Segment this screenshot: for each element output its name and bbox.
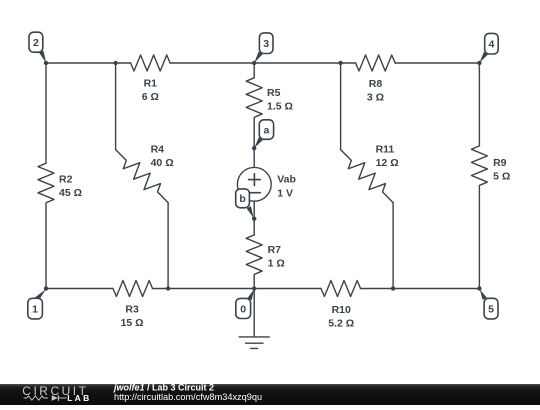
junction node 4 corner — [477, 61, 481, 65]
footer bar — [0, 384, 540, 405]
resistor R9 body — [471, 146, 487, 186]
svg-text:15 Ω: 15 Ω — [121, 317, 144, 329]
node 0 label — [236, 298, 251, 318]
wire R7 to node0 — [253, 275, 255, 288]
svg-text:3: 3 — [263, 38, 269, 50]
svg-text:3 Ω: 3 Ω — [367, 91, 384, 103]
svg-text:5.2 Ω: 5.2 Ω — [328, 318, 354, 330]
resistor R1 body — [131, 55, 171, 71]
junction node 3 — [252, 61, 256, 65]
svg-text:LAB: LAB — [67, 393, 91, 403]
node 2 pointer — [39, 51, 46, 63]
node 2 label — [29, 32, 43, 52]
svg-text:R1: R1 — [144, 78, 158, 90]
voltage source plus sign — [249, 174, 261, 186]
junction R3/R4 bottom — [166, 286, 170, 290]
junction R10/R11 bottom — [391, 286, 395, 290]
node 5 label — [484, 298, 498, 319]
voltage source Vab (circle) — [237, 167, 271, 201]
junction node b — [252, 217, 256, 221]
resistor R10 body — [321, 281, 361, 297]
resistor R7 body — [246, 235, 262, 275]
svg-text:1: 1 — [32, 303, 38, 315]
voltage source minus sign — [249, 192, 261, 194]
node a label — [259, 120, 273, 140]
node b pointer — [247, 206, 254, 218]
svg-text:R5: R5 — [267, 87, 281, 99]
junction node 0 — [252, 286, 256, 290]
node a pointer — [254, 137, 262, 148]
resistor R8 body — [356, 55, 396, 71]
svg-text:R2: R2 — [59, 173, 73, 185]
svg-text:1.5 Ω: 1.5 Ω — [267, 101, 293, 113]
node 4 label — [485, 33, 499, 54]
wire center column node3 to R5 — [253, 63, 255, 78]
junction node 2 corner — [44, 61, 48, 65]
svg-text:6 Ω: 6 Ω — [142, 91, 159, 103]
CircuitLab logo wordmark — [22, 384, 88, 401]
wire left rail (node2 to node1) — [45, 63, 47, 289]
svg-text:1 V: 1 V — [277, 188, 293, 200]
junction node 5 corner — [477, 286, 481, 290]
node 4 pointer — [480, 52, 488, 63]
wire right rail (node4 to node5) — [478, 63, 480, 289]
resistor R3 body — [113, 281, 153, 297]
junction R8/R11 top — [338, 61, 342, 65]
wire bottom rail: node1 to node0 to node5 — [46, 288, 479, 290]
junction R1/R4 top — [113, 61, 117, 65]
svg-text:http://circuitlab.com/cfw8m34x: http://circuitlab.com/cfw8m34xzq9qu — [114, 392, 262, 402]
node 1 label — [28, 298, 43, 319]
svg-text:R10: R10 — [332, 304, 351, 316]
svg-text:R7: R7 — [268, 244, 282, 256]
svg-text:b: b — [239, 193, 245, 205]
resistor R11 (diagonal) with connecting wires — [340, 63, 342, 150]
junction node a — [252, 146, 256, 150]
resistor R2 body — [38, 163, 54, 203]
svg-text:1 Ω: 1 Ω — [268, 257, 285, 269]
svg-text:R3: R3 — [125, 304, 139, 316]
svg-text:R4: R4 — [151, 144, 165, 156]
svg-text:40 Ω: 40 Ω — [151, 157, 174, 169]
svg-text:R9: R9 — [493, 157, 507, 169]
ground symbol at node 0 — [253, 289, 255, 337]
svg-text:0: 0 — [240, 303, 246, 315]
logo resistor squiggle + diode — [24, 396, 48, 400]
svg-text:R11: R11 — [376, 144, 395, 156]
node b label — [236, 189, 250, 208]
node 5 pointer — [480, 289, 487, 300]
svg-text:45 Ω: 45 Ω — [59, 187, 82, 199]
svg-text:5: 5 — [488, 303, 494, 315]
svg-text:Vab: Vab — [277, 174, 296, 186]
resistor R4 (diagonal) with connecting wires — [115, 63, 117, 150]
node 3 label — [259, 33, 273, 54]
resistor R5 body — [246, 78, 262, 118]
svg-text:5 Ω: 5 Ω — [493, 171, 510, 183]
wire source to node b to R7 — [253, 201, 255, 235]
svg-text:a: a — [264, 124, 270, 136]
svg-text:R8: R8 — [369, 78, 383, 90]
node 3 pointer — [254, 52, 262, 63]
wire R5 to node a to source — [253, 118, 255, 167]
wire top rail: node2 to node3 to node4 — [46, 62, 479, 64]
node 1 pointer — [35, 289, 46, 300]
svg-text:12 Ω: 12 Ω — [376, 157, 399, 169]
junction node 1 corner — [44, 286, 48, 290]
node 0 pointer — [247, 289, 254, 300]
svg-text:4: 4 — [489, 39, 495, 51]
svg-text:2: 2 — [33, 37, 39, 49]
